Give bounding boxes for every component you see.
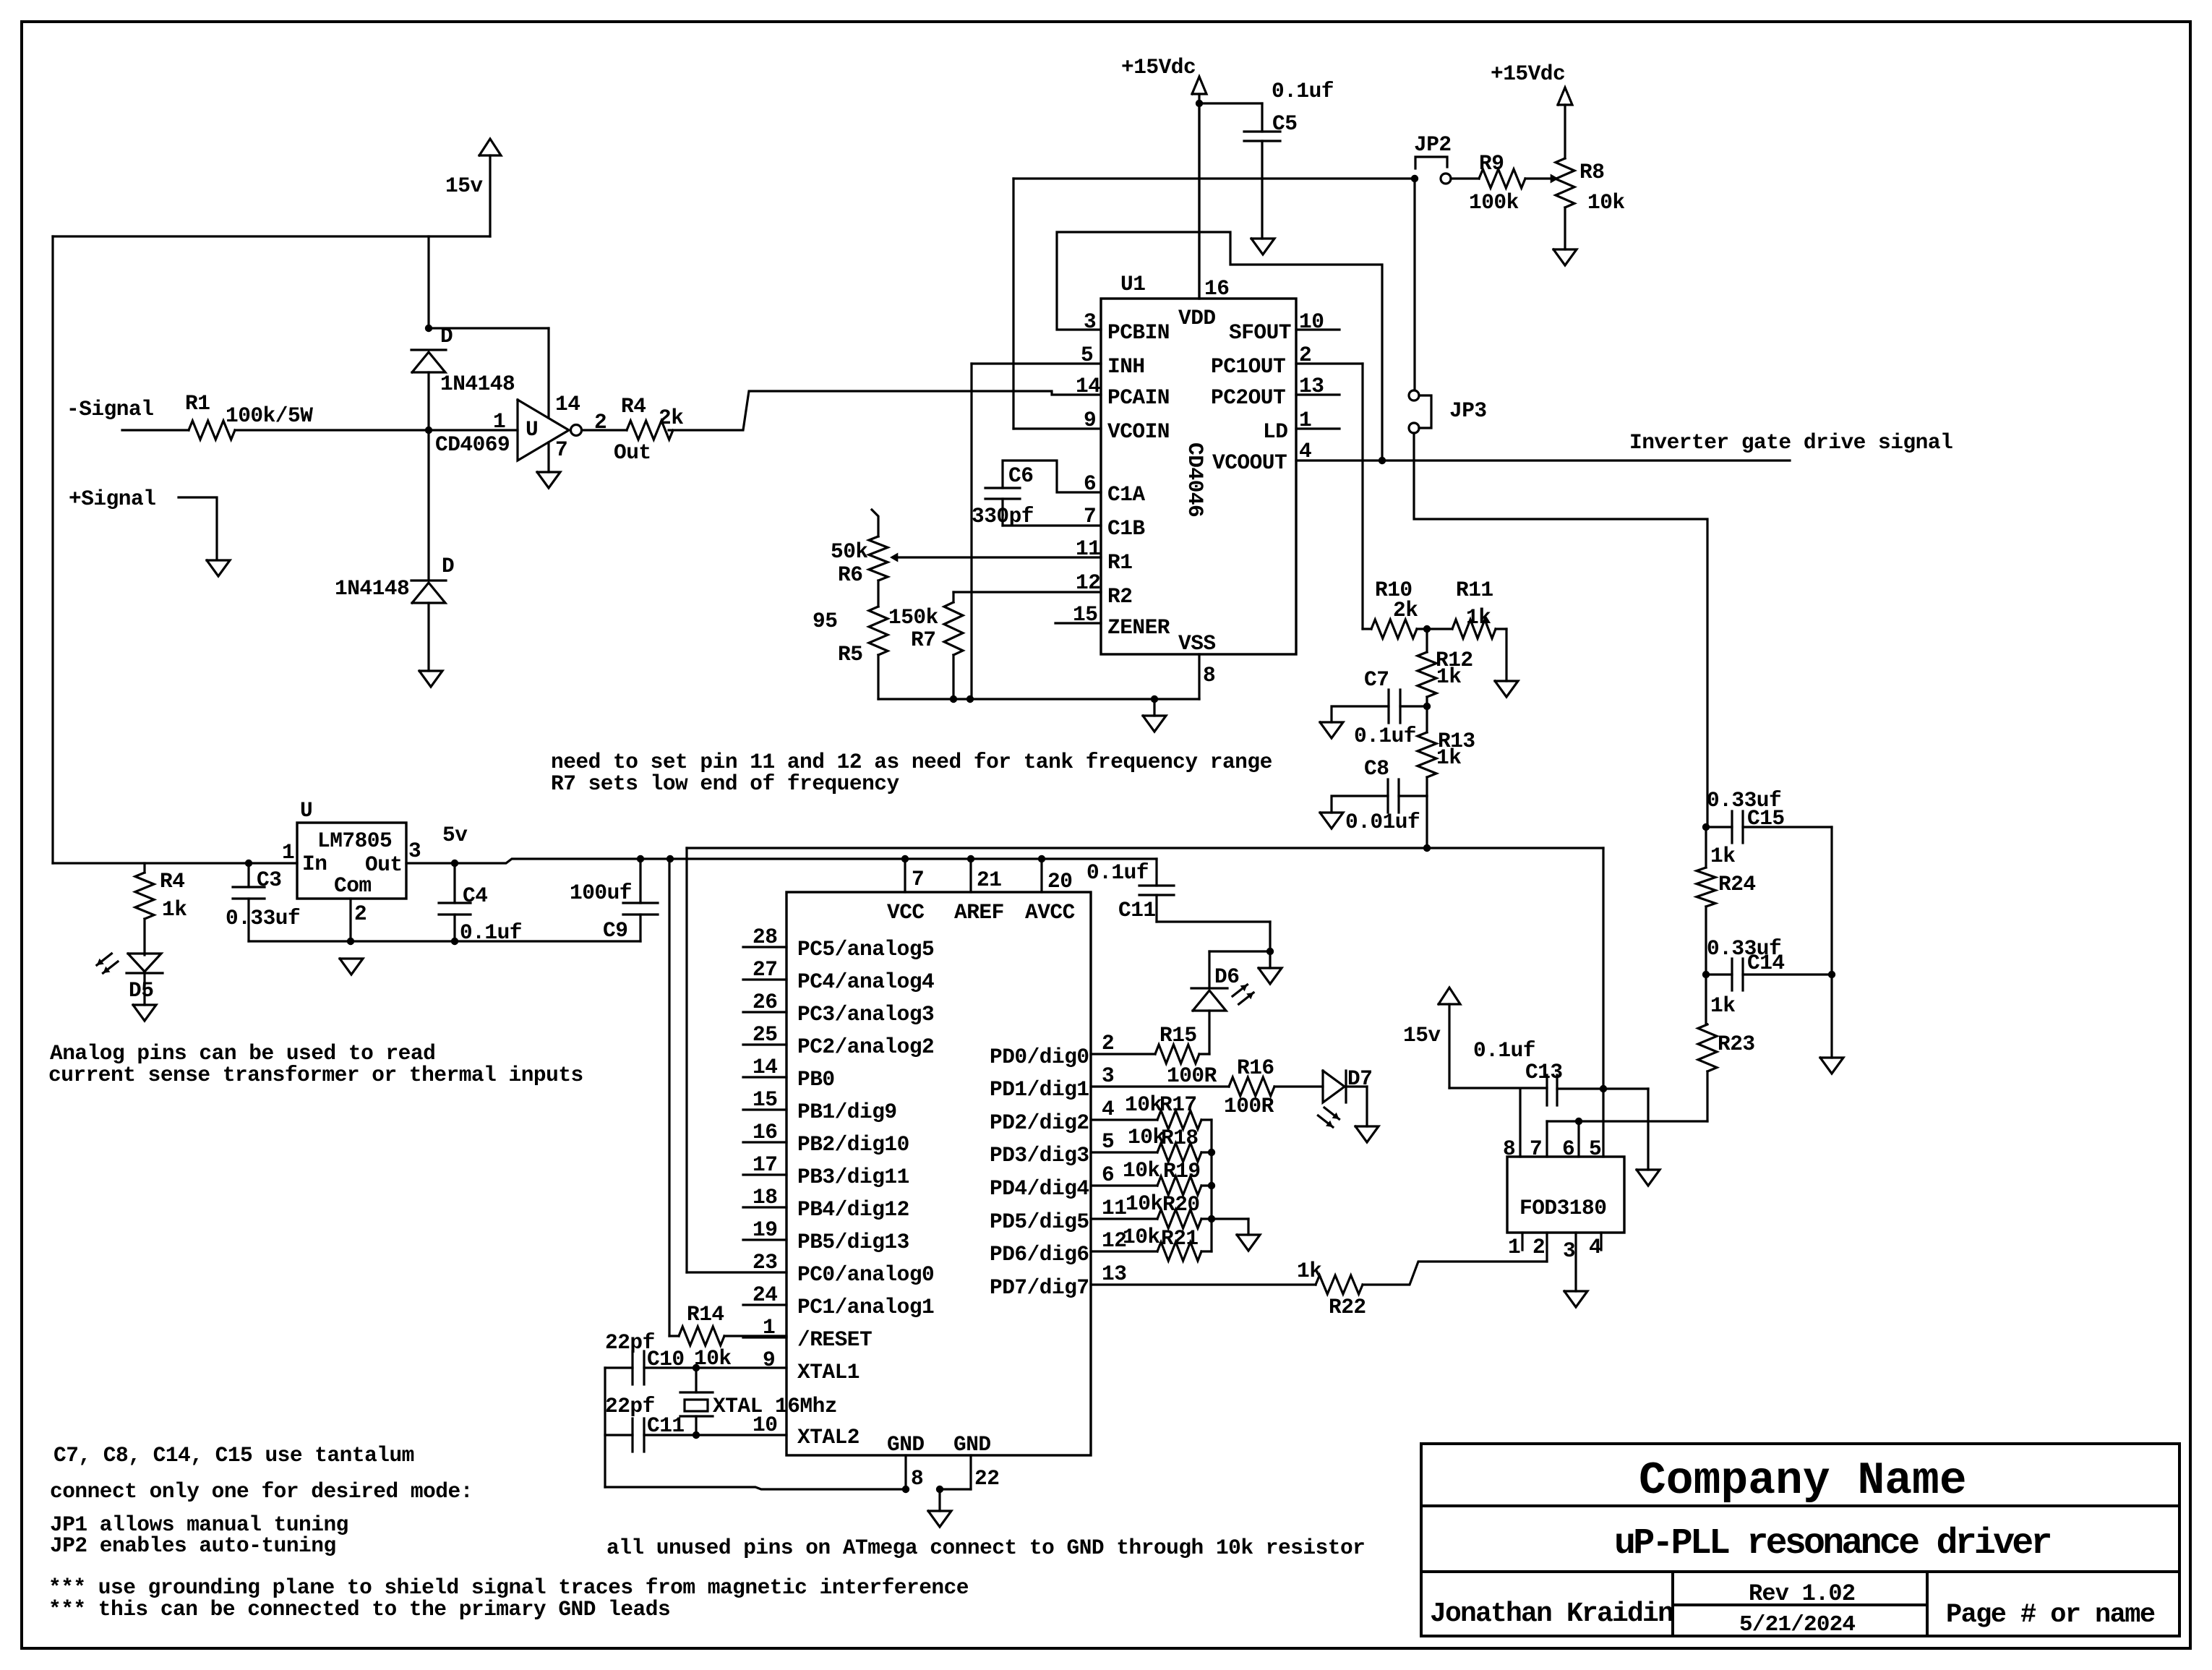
svg-text:/RESET: /RESET — [797, 1327, 872, 1352]
svg-text:R11: R11 — [1456, 578, 1493, 602]
svg-text:PCAIN: PCAIN — [1107, 385, 1170, 410]
title block col line 1 — [1671, 1572, 1674, 1636]
pin 15 stub (ATmega PB1/dig9) — [743, 1108, 786, 1110]
svg-text:JP2 enables auto-tuning: JP2 enables auto-tuning — [50, 1533, 336, 1558]
wire pin11 R1 with wiper arrow — [893, 556, 1101, 558]
wire JP3 bottom to C15 chain — [1414, 433, 1707, 827]
wire VCO control JP2 to pin9 — [1013, 177, 1415, 179]
svg-text:Analog pins can be used to rea: Analog pins can be used to read — [50, 1041, 435, 1066]
svg-text:3: 3 — [1084, 309, 1096, 334]
capacitor C11 22pf — [631, 1418, 633, 1452]
pin 5 (FOD) — [1602, 1089, 1604, 1157]
svg-text:R19: R19 — [1163, 1159, 1201, 1183]
svg-text:C11: C11 — [647, 1413, 685, 1438]
svg-text:R16: R16 — [1237, 1055, 1274, 1080]
svg-text:0.1uf: 0.1uf — [1354, 724, 1416, 748]
svg-text:R7 sets low end of frequency: R7 sets low end of frequency — [551, 771, 899, 796]
wire top rail — [53, 235, 490, 237]
svg-text:27: 27 — [753, 957, 777, 982]
svg-text:CD4069: CD4069 — [435, 432, 510, 457]
capacitor C13 0.1uf — [1546, 1075, 1548, 1105]
svg-text:C14: C14 — [1747, 951, 1785, 975]
pin 26 stub (ATmega PC3/analog3) — [743, 1011, 786, 1013]
resistor R22 1k — [1091, 1283, 1316, 1285]
svg-text:R17: R17 — [1159, 1092, 1197, 1117]
svg-text:GND: GND — [887, 1432, 925, 1457]
svg-text:100R: 100R — [1224, 1094, 1274, 1118]
svg-text:6: 6 — [1084, 471, 1096, 496]
svg-text:2k: 2k — [659, 406, 683, 430]
svg-text:100k: 100k — [1469, 190, 1519, 215]
svg-text:R23: R23 — [1718, 1032, 1755, 1056]
svg-text:7: 7 — [912, 867, 924, 891]
pin 16 stub (ATmega PB2/dig10) — [743, 1141, 786, 1143]
svg-text:4: 4 — [1102, 1097, 1114, 1121]
ground (VSS rail) — [1153, 699, 1155, 716]
svg-text:14: 14 — [1076, 374, 1100, 398]
svg-text:INH: INH — [1107, 354, 1145, 379]
capacitor C7 — [1387, 690, 1389, 723]
svg-text:PC2OUT: PC2OUT — [1211, 385, 1285, 410]
svg-text:current sense transformer or t: current sense transformer or thermal inp… — [48, 1063, 583, 1087]
pin 27 stub (ATmega PC4/analog4) — [743, 978, 786, 980]
svg-text:R8: R8 — [1579, 160, 1604, 184]
capacitor C3 — [247, 863, 249, 887]
wire inverter output — [582, 429, 627, 431]
wire GND pin 8 — [904, 1455, 906, 1489]
svg-text:U1: U1 — [1120, 272, 1145, 296]
node junction -Signal/D1 — [425, 427, 432, 434]
svg-text:PD5/dig5: PD5/dig5 — [990, 1209, 1089, 1234]
wire pin7 C1B — [1003, 524, 1101, 526]
diode D2 1N4148 — [411, 579, 446, 581]
jumper JP2 — [1441, 174, 1451, 184]
ground (C5) — [1251, 239, 1274, 254]
pin 24 stub (ATmega PC1/analog1) — [743, 1303, 786, 1306]
node junction C4 top — [451, 860, 458, 867]
node junction XTAL2 — [693, 1431, 700, 1439]
svg-text:5/21/2024: 5/21/2024 — [1739, 1612, 1855, 1637]
svg-text:R21: R21 — [1161, 1226, 1199, 1251]
svg-text:24: 24 — [753, 1283, 777, 1307]
node junction AVCC rail — [1038, 855, 1045, 862]
svg-text:PB0: PB0 — [797, 1067, 835, 1092]
LED D6 — [1191, 987, 1227, 989]
svg-text:U: U — [300, 798, 312, 823]
svg-text:3: 3 — [1563, 1238, 1575, 1263]
wire C13 right to pin5 — [1557, 1087, 1648, 1089]
IC U1 CD4046 box — [1101, 299, 1296, 654]
resistor R15 100R — [1091, 1053, 1155, 1055]
svg-text:14: 14 — [753, 1055, 777, 1079]
pin 2 (FOD) — [1546, 1233, 1548, 1262]
resistor R1 — [189, 421, 235, 440]
wire 10k resistors common — [1210, 1120, 1212, 1251]
wire pin4 VCOOUT gate drive — [1296, 459, 1790, 461]
resistor R18 10k — [1091, 1151, 1157, 1153]
node junction XTAL1 — [693, 1364, 700, 1371]
svg-text:1N4148: 1N4148 — [440, 372, 515, 396]
ground (R8) — [1553, 249, 1577, 265]
wire D7 to ground — [1346, 1085, 1367, 1087]
svg-text:VSS: VSS — [1178, 631, 1216, 656]
svg-text:D: D — [440, 324, 453, 348]
svg-text:-Signal: -Signal — [67, 397, 153, 421]
resistor R20 10k — [1091, 1217, 1157, 1220]
svg-text:10: 10 — [1299, 309, 1324, 334]
svg-text:C3: C3 — [257, 868, 281, 892]
resistor R13 1k — [1426, 706, 1428, 732]
svg-text:C8: C8 — [1364, 756, 1389, 781]
svg-text:+15Vdc: +15Vdc — [1121, 55, 1196, 80]
wire Com pin drop — [349, 899, 351, 941]
svg-text:+Signal: +Signal — [69, 487, 155, 511]
node junction C3/In — [245, 860, 252, 867]
svg-text:D: D — [442, 554, 454, 578]
svg-text:PB5/dig13: PB5/dig13 — [797, 1230, 909, 1254]
resistor R10 2k — [1363, 628, 1371, 630]
inverter U CD4069 — [518, 400, 569, 461]
svg-text:XTAL 16Mhz: XTAL 16Mhz — [713, 1394, 837, 1418]
node junction C4 bottom — [451, 938, 458, 945]
svg-text:R20: R20 — [1162, 1192, 1200, 1217]
wire AREF pin 21 — [969, 859, 972, 892]
node junction R14 rail — [666, 855, 674, 862]
svg-text:100uf: 100uf — [570, 881, 632, 905]
node junction VDD/C5 — [1196, 100, 1203, 107]
svg-text:uP-PLL resonance driver: uP-PLL resonance driver — [1614, 1523, 2051, 1564]
svg-text:R5: R5 — [838, 642, 862, 667]
svg-text:JP2: JP2 — [1414, 132, 1452, 157]
svg-text:R15: R15 — [1159, 1023, 1197, 1048]
svg-text:R2: R2 — [1107, 584, 1132, 609]
svg-text:8: 8 — [911, 1466, 923, 1491]
svg-text:R22: R22 — [1329, 1295, 1366, 1319]
svg-text:2k: 2k — [1393, 598, 1418, 622]
svg-text:In: In — [302, 852, 327, 876]
svg-text:C1B: C1B — [1107, 516, 1145, 541]
svg-text:1: 1 — [493, 409, 505, 434]
svg-text:100k/5W: 100k/5W — [226, 403, 313, 428]
node junction R7/rail — [950, 695, 957, 703]
node junction pin4/pin3 — [1379, 457, 1386, 464]
svg-text:21: 21 — [977, 868, 1001, 892]
svg-text:22: 22 — [974, 1466, 999, 1491]
node junction C14 right — [1828, 971, 1835, 978]
svg-text:R18: R18 — [1161, 1126, 1199, 1150]
svg-text:2: 2 — [1102, 1031, 1114, 1055]
wire pin15 ZENER stub — [1055, 622, 1101, 624]
svg-text:R14: R14 — [687, 1302, 724, 1327]
ground (10k common) — [1237, 1235, 1260, 1251]
svg-text:all unused pins on ATmega conn: all unused pins on ATmega connect to GND… — [606, 1536, 1365, 1560]
wire VDD drop to pin16 — [1198, 103, 1200, 299]
svg-text:0.1uf: 0.1uf — [1473, 1038, 1535, 1063]
svg-text:12: 12 — [1076, 570, 1100, 595]
wire VSS ground rail — [878, 698, 1199, 700]
capacitor C6 — [985, 487, 1020, 489]
svg-text:18: 18 — [753, 1185, 777, 1209]
node junction C9 top — [637, 855, 644, 862]
svg-text:C1A: C1A — [1107, 482, 1145, 507]
svg-text:10k: 10k — [1128, 1125, 1165, 1149]
svg-text:VCC: VCC — [887, 900, 925, 925]
svg-text:0.1uf: 0.1uf — [1272, 79, 1334, 103]
svg-text:16: 16 — [1204, 276, 1229, 301]
ground (C13) — [1637, 1170, 1660, 1186]
svg-text:PD6/dig6: PD6/dig6 — [990, 1242, 1089, 1267]
svg-text:2: 2 — [1299, 343, 1311, 367]
svg-text:1k: 1k — [1466, 605, 1491, 630]
svg-text:11: 11 — [1102, 1196, 1126, 1220]
svg-text:PB1/dig9: PB1/dig9 — [797, 1100, 897, 1124]
svg-text:8: 8 — [1503, 1136, 1515, 1161]
svg-text:LD: LD — [1263, 419, 1287, 444]
wire D2 top lead — [427, 430, 429, 581]
wire pin8 VSS drop — [1198, 654, 1200, 699]
svg-text:5: 5 — [1081, 343, 1093, 367]
wire pin12 R2 — [953, 591, 1101, 593]
svg-text:PD2/dig2: PD2/dig2 — [990, 1110, 1089, 1135]
wire JP2 to JP3 — [1413, 182, 1415, 390]
svg-text:VCOOUT: VCOOUT — [1212, 450, 1287, 475]
svg-text:19: 19 — [753, 1217, 777, 1242]
wire -Signal input — [122, 429, 189, 431]
wire left drop to LM7805 In — [51, 236, 53, 863]
node junction pin6/R23 — [1575, 1118, 1582, 1125]
svg-text:need to set pin 11 and 12 as n: need to set pin 11 and 12 as need for ta… — [551, 750, 1272, 774]
svg-text:LM7805: LM7805 — [317, 828, 392, 853]
svg-text:20: 20 — [1047, 869, 1072, 894]
title block col line 2 — [1926, 1572, 1929, 1636]
svg-text:8: 8 — [1203, 663, 1215, 688]
resistor R19 10k — [1091, 1184, 1157, 1186]
node junction R19 common — [1208, 1182, 1215, 1189]
svg-text:C9: C9 — [603, 918, 627, 943]
svg-text:C5: C5 — [1272, 111, 1297, 136]
ground (D5) — [133, 1005, 156, 1021]
svg-text:+15Vdc: +15Vdc — [1491, 61, 1565, 86]
capacitor C11 (0.1uf) — [1155, 859, 1157, 886]
svg-text:C10: C10 — [647, 1347, 685, 1371]
svg-text:ZENER: ZENER — [1107, 615, 1170, 640]
svg-text:0.1uf: 0.1uf — [1086, 860, 1149, 885]
svg-text:PD3/dig3: PD3/dig3 — [990, 1143, 1089, 1168]
svg-text:0.01uf: 0.01uf — [1345, 810, 1420, 834]
capacitor C15 — [1706, 826, 1732, 828]
svg-text:Page # or name: Page # or name — [1946, 1600, 2155, 1630]
pin 7 (FOD) — [1546, 1121, 1548, 1157]
svg-text:Inverter gate drive signal: Inverter gate drive signal — [1629, 430, 1952, 455]
svg-text:Com: Com — [334, 873, 372, 898]
wire C14 right to ground — [1830, 975, 1832, 1058]
wire 15v to C13/pin8 — [1449, 1087, 1547, 1089]
wire xtal ground run — [605, 1487, 906, 1489]
svg-text:C7, C8, C14, C15 use tantalum: C7, C8, C14, C15 use tantalum — [53, 1443, 414, 1468]
pin 14 stub (ATmega PB0) — [743, 1076, 786, 1078]
svg-text:PC2/analog2: PC2/analog2 — [797, 1035, 934, 1059]
node junction AREF rail — [967, 855, 974, 862]
svg-text:PC5/analog5: PC5/analog5 — [797, 937, 934, 962]
wire pin5 INH stub — [972, 362, 1101, 364]
svg-text:4: 4 — [1299, 439, 1311, 463]
svg-text:16: 16 — [753, 1120, 777, 1144]
svg-text:26: 26 — [753, 990, 777, 1014]
resistor R7 150k — [952, 592, 954, 602]
resistor R12 1k — [1426, 629, 1428, 652]
svg-text:JP3: JP3 — [1449, 398, 1487, 423]
title block frame — [1421, 1444, 2179, 1636]
potentiometer R6 50k — [872, 510, 878, 536]
wire C5 branch — [1199, 102, 1262, 104]
ground (C7) — [1320, 722, 1343, 738]
svg-text:15v: 15v — [445, 174, 483, 198]
wire Out net to PCAIN — [669, 391, 1101, 430]
pin 1 stub (ATmega /RESET) — [743, 1336, 786, 1338]
svg-text:3: 3 — [1102, 1063, 1114, 1088]
ground (ATmega GND) — [938, 1489, 940, 1511]
jumper JP3 — [1409, 390, 1419, 401]
svg-text:1k: 1k — [1436, 664, 1461, 689]
ground (C8) — [1320, 813, 1343, 828]
node junction Com/gnd — [347, 938, 354, 945]
wire GND pin 22 — [969, 1455, 972, 1489]
ground (C11/D6) — [1269, 951, 1271, 968]
svg-text:Out: Out — [614, 440, 651, 465]
wire R13/C8 to PC0 and C13 net — [1426, 796, 1428, 848]
diode D1 1N4148 — [411, 348, 446, 351]
wire VCC pin 7 — [904, 859, 906, 892]
resistor R14 10k — [668, 859, 670, 1336]
node junction C11/D6/gnd — [1266, 948, 1274, 955]
svg-text:10k: 10k — [1123, 1158, 1160, 1183]
svg-text:PC1/analog1: PC1/analog1 — [797, 1295, 934, 1319]
pin 4 (FOD) — [1600, 1233, 1602, 1250]
svg-text:4: 4 — [1589, 1235, 1601, 1259]
svg-text:*** use grounding plane to shi: *** use grounding plane to shield signal… — [48, 1575, 969, 1600]
svg-text:SFOUT: SFOUT — [1229, 320, 1291, 345]
IC FOD3180 box — [1507, 1157, 1624, 1233]
svg-text:U: U — [526, 417, 538, 442]
capacitor C4 — [453, 863, 455, 903]
svg-text:PD0/dig0: PD0/dig0 — [990, 1045, 1089, 1069]
svg-text:6: 6 — [1102, 1162, 1114, 1187]
svg-text:28: 28 — [753, 925, 777, 949]
svg-text:R9: R9 — [1479, 151, 1504, 176]
svg-text:C13: C13 — [1525, 1060, 1563, 1084]
resistor R4 (1k LED) — [143, 863, 145, 873]
svg-text:5v: 5v — [442, 823, 468, 847]
svg-text:D6: D6 — [1214, 964, 1239, 989]
ground (R11) — [1495, 681, 1518, 697]
pin 3 (FOD) — [1574, 1233, 1577, 1291]
wire common to ground — [1212, 1217, 1248, 1220]
wire R1 to inverter — [235, 429, 518, 431]
svg-text:Jonathan Kraidin: Jonathan Kraidin — [1430, 1598, 1673, 1630]
wire pin3 PCBIN route — [1057, 232, 1382, 461]
svg-text:R24: R24 — [1718, 872, 1756, 896]
svg-text:PC0/analog0: PC0/analog0 — [797, 1262, 934, 1287]
potentiometer R8 10k — [1556, 158, 1574, 207]
node junction gnd/rail — [1151, 695, 1158, 703]
wire pin2 PC1OUT route — [1296, 362, 1363, 364]
LED D5 — [127, 972, 163, 974]
svg-text:23: 23 — [753, 1250, 777, 1275]
wire JP2 to R9 — [1451, 177, 1479, 179]
svg-text:1N4148: 1N4148 — [335, 576, 409, 601]
wire feedback to pin 14 — [429, 327, 549, 329]
wire AVCC pin 20 — [1040, 859, 1042, 892]
pin 8 (FOD) — [1519, 1089, 1521, 1157]
wire pin1 LD stub — [1296, 427, 1339, 429]
svg-text:5: 5 — [1102, 1129, 1114, 1154]
node junction VCC rail — [901, 855, 909, 862]
node junction above D1 — [425, 325, 432, 332]
svg-text:C4: C4 — [463, 883, 487, 908]
svg-text:0.33uf: 0.33uf — [226, 906, 300, 930]
svg-text:1k: 1k — [1436, 745, 1461, 770]
svg-text:Company Name: Company Name — [1639, 1455, 1967, 1507]
svg-text:17: 17 — [753, 1152, 777, 1177]
wire C13 gnd drop — [1647, 1089, 1649, 1170]
ground (D2) — [419, 671, 442, 687]
wire pin16 top pin — [1198, 103, 1200, 299]
svg-text:C11: C11 — [1118, 898, 1156, 922]
svg-text:7: 7 — [1084, 504, 1096, 528]
wire 5v output rail — [406, 859, 1157, 863]
wire +Signal stub — [179, 497, 217, 558]
power symbol +15Vdc (U1) — [1192, 77, 1206, 94]
svg-text:3: 3 — [408, 839, 421, 863]
pin 19 stub (ATmega PB5/dig13) — [743, 1238, 786, 1241]
svg-text:PB4/dig12: PB4/dig12 — [797, 1197, 909, 1222]
svg-text:9: 9 — [1084, 408, 1096, 432]
wire R23 bottom to FOD 6/7 — [1547, 1120, 1707, 1122]
svg-text:C7: C7 — [1364, 667, 1389, 692]
power symbol 15v (FOD) — [1439, 988, 1460, 1004]
svg-text:1: 1 — [282, 840, 294, 865]
wire LM7805 input row — [53, 862, 297, 864]
pin 28 stub (ATmega PC5/analog5) — [743, 946, 786, 948]
svg-text:PC1OUT: PC1OUT — [1211, 354, 1285, 379]
svg-text:1: 1 — [1299, 408, 1311, 432]
crystal XTAL 16Mhz — [680, 1391, 713, 1393]
svg-text:6: 6 — [1562, 1136, 1574, 1161]
title block row line 2 — [1421, 1570, 2179, 1573]
node junction PC0 net — [1423, 844, 1431, 852]
capacitor C14 — [1706, 973, 1732, 975]
resistor R21 10k — [1091, 1250, 1157, 1252]
ground (LM7805 Com) — [340, 959, 363, 975]
svg-text:2: 2 — [354, 902, 366, 926]
node junction R18 common — [1208, 1149, 1215, 1156]
svg-text:FOD3180: FOD3180 — [1519, 1196, 1606, 1220]
svg-text:25: 25 — [753, 1022, 777, 1047]
node junction R12/R13/C7 — [1423, 703, 1431, 710]
svg-text:14: 14 — [555, 392, 580, 416]
resistor R9 100k — [1479, 169, 1525, 188]
svg-text:PC4/analog4: PC4/analog4 — [797, 969, 934, 994]
svg-text:PD7/dig7: PD7/dig7 — [990, 1275, 1089, 1300]
IC ATmega box — [786, 892, 1091, 1455]
svg-text:5: 5 — [1589, 1136, 1601, 1161]
svg-text:PB2/dig10: PB2/dig10 — [797, 1132, 909, 1157]
node junction C13/pin5 — [1600, 1085, 1607, 1092]
resistor R17 10k — [1091, 1118, 1157, 1121]
node junction R10/R11/R12 — [1423, 625, 1431, 633]
svg-text:15v: 15v — [1403, 1023, 1441, 1048]
svg-text:50k: 50k — [831, 539, 868, 564]
